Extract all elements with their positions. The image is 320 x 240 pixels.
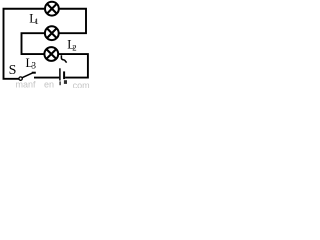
wire: switch to battery bbox=[34, 77, 59, 79]
lamp L3 bbox=[44, 47, 58, 61]
svg-text:S: S bbox=[9, 63, 17, 78]
wire: top-right + right vertical upper + L2 right wire bbox=[59, 9, 86, 33]
wire: L3 right wire + right vertical lower + bottom-right wire bbox=[59, 54, 88, 78]
stray squiggle mark under L3 wire bbox=[61, 55, 66, 62]
switch S pivot bbox=[19, 77, 22, 80]
svg-text:en: en bbox=[44, 80, 54, 88]
switch lever bbox=[22, 73, 32, 78]
lamp L2 bbox=[45, 26, 59, 40]
label L1 bbox=[29, 12, 39, 27]
lamp L1 bbox=[45, 2, 59, 16]
svg-text:com: com bbox=[73, 80, 90, 88]
svg-text:3: 3 bbox=[31, 61, 36, 71]
svg-text:manf: manf bbox=[16, 80, 37, 88]
wire: left side + top-left + bottom-left bbox=[4, 9, 45, 79]
label L3 bbox=[26, 56, 37, 71]
battery long plate bbox=[59, 68, 61, 80]
battery short plate bbox=[63, 71, 65, 79]
svg-text:2: 2 bbox=[72, 42, 76, 52]
svg-text:1: 1 bbox=[34, 16, 38, 26]
switch contact tip bbox=[32, 72, 36, 74]
label L2 bbox=[67, 38, 76, 53]
wire: L2 left wire + mid-left vertical + L3 left wire bbox=[22, 33, 45, 54]
